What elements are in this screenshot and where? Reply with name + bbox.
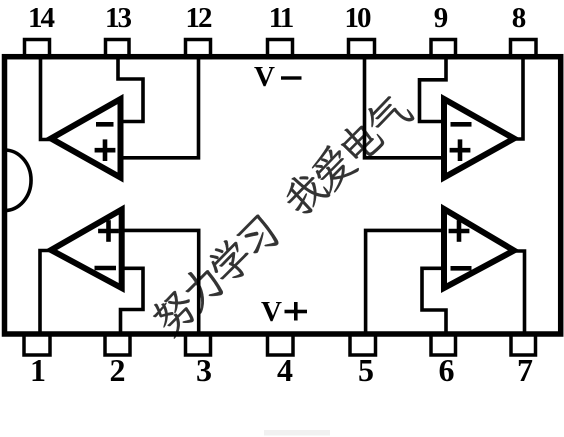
svg-text:7: 7	[517, 352, 533, 388]
svg-text:1: 1	[30, 352, 46, 388]
svg-text:12: 12	[186, 2, 213, 34]
svg-text:5: 5	[358, 352, 374, 388]
svg-text:13: 13	[105, 2, 132, 34]
svg-text:2: 2	[110, 352, 126, 388]
svg-text:6: 6	[439, 352, 455, 388]
svg-text:3: 3	[196, 352, 212, 388]
svg-text:8: 8	[512, 2, 527, 34]
svg-text:9: 9	[434, 2, 449, 34]
svg-text:14: 14	[28, 2, 55, 34]
svg-text:V: V	[254, 61, 275, 93]
svg-text:11: 11	[269, 2, 293, 34]
svg-text:4: 4	[277, 352, 293, 388]
svg-text:10: 10	[345, 2, 372, 34]
svg-text:V: V	[261, 296, 282, 328]
